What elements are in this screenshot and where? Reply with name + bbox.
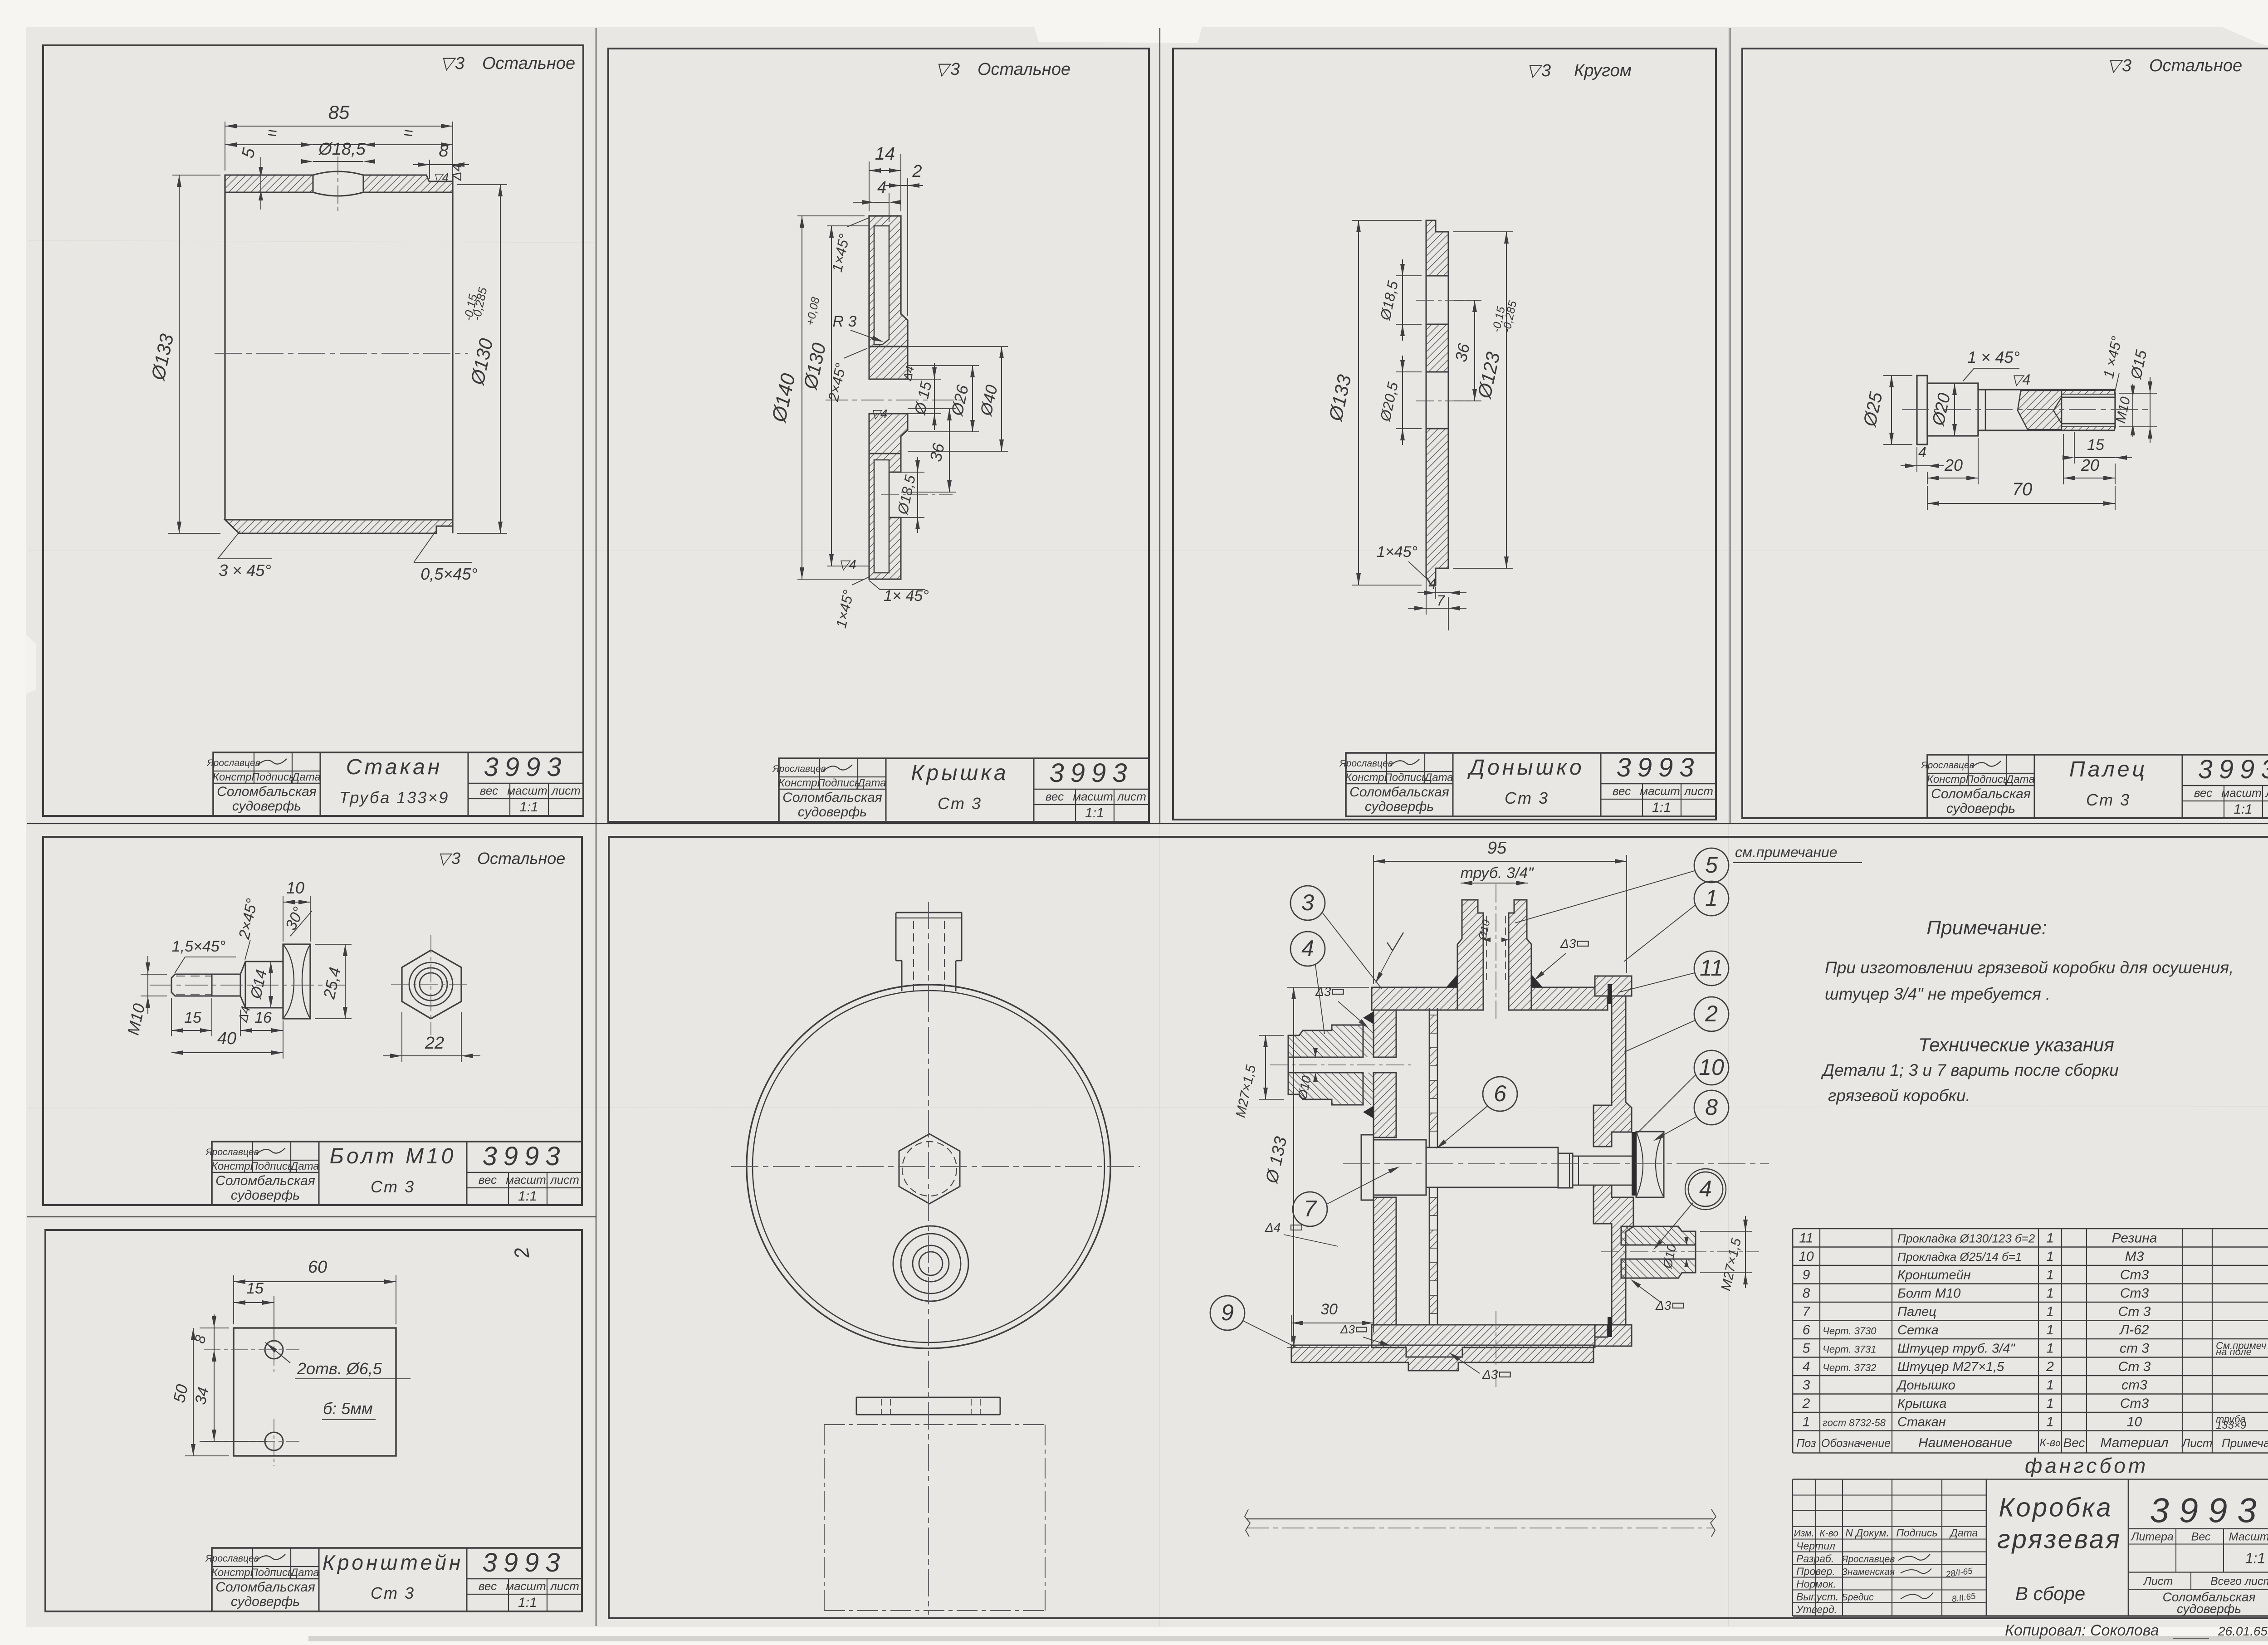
svg-text:грязевой коробки.: грязевой коробки. xyxy=(1828,1086,1970,1105)
svg-text:1:1: 1:1 xyxy=(2245,1550,2265,1567)
dimension 14 (thickness) xyxy=(869,161,870,211)
assembly front view: main circle Ø140/Ø133 xyxy=(747,985,1110,1348)
svg-text:Δ4: Δ4 xyxy=(450,164,464,181)
svg-text:Детали 1; 3 и 7 варить по: Детали 1; 3 и 7 варить после сборки xyxy=(1821,1061,2119,1079)
svg-text:лист: лист xyxy=(551,784,581,797)
dimension 15 (болт) xyxy=(171,998,172,1036)
dimension Ø133 (донышко) xyxy=(1352,220,1422,221)
svg-text:Дата: Дата xyxy=(289,1160,319,1172)
svg-text:Примечан.: Примечан. xyxy=(2222,1436,2268,1450)
svg-text:3993: 3993 xyxy=(2198,755,2268,784)
svg-text:фангсбот: фангсбот xyxy=(2025,1454,2148,1478)
svg-text:4: 4 xyxy=(1428,576,1437,592)
title block: Палец 3993 xyxy=(1927,755,2268,818)
svg-text:1: 1 xyxy=(2046,1415,2054,1430)
svg-text:26.01.65г.: 26.01.65г. xyxy=(2218,1624,2268,1638)
dimension 15 (thread depth) xyxy=(2074,432,2075,464)
scanner shadow at bottom edge xyxy=(308,1636,2268,1641)
svg-text:штуцер 3/4" не требуется .: штуцер 3/4" не требуется . xyxy=(1825,985,2050,1003)
part: болт М10 side view xyxy=(171,974,212,996)
svg-text:Дата: Дата xyxy=(2004,773,2034,786)
dimension Ø15 (палец) xyxy=(2119,393,2157,394)
svg-text:лист: лист xyxy=(1683,784,1713,798)
svg-text:лист: лист xyxy=(549,1579,579,1593)
svg-text:10: 10 xyxy=(1799,1249,1814,1264)
svg-text:Штуцер труб. 3/4": Штуцер труб. 3/4" xyxy=(1897,1342,2015,1356)
svg-text:вес: вес xyxy=(1613,784,1631,798)
svg-text:16: 16 xyxy=(254,1009,272,1026)
dimension Ø123 -0.15 -0.285 xyxy=(1453,231,1513,232)
svg-text:6: 6 xyxy=(1803,1323,1810,1337)
section: левый штуцер М27×1.5 (#4) xyxy=(1288,1025,1363,1057)
section: верхний штуцер труб 3/4 (#5) left wall xyxy=(1457,900,1483,1010)
dimension 20 (left) xyxy=(1927,472,1928,484)
svg-text:вес: вес xyxy=(479,1579,497,1593)
svg-text:Остальное: Остальное xyxy=(477,849,565,868)
svg-text:вес: вес xyxy=(480,784,498,797)
svg-text:Соломбальская: Соломбальская xyxy=(782,790,882,805)
dimension = = (symmetry) line xyxy=(313,144,363,145)
dimension 36 (донышко) xyxy=(1474,300,1475,401)
part: кронштейн plate xyxy=(234,1328,396,1456)
svg-text:7: 7 xyxy=(1437,592,1445,609)
balloon 7 xyxy=(1293,1192,1327,1226)
svg-text:Дата: Дата xyxy=(290,771,320,783)
svg-text:грязевая: грязевая xyxy=(1997,1525,2121,1554)
svg-text:Ярославцев: Ярославцев xyxy=(772,764,826,774)
svg-text:Подпись: Подпись xyxy=(817,777,860,789)
dimension 25.4 xyxy=(315,944,352,945)
svg-text:Ст 3: Ст 3 xyxy=(2118,1359,2151,1374)
panel frame: Палец sheet xyxy=(1742,49,2268,818)
svg-text:Ст3: Ст3 xyxy=(2120,1268,2149,1283)
svg-text:Дата: Дата xyxy=(1423,771,1453,784)
svg-text:Подпись: Подпись xyxy=(1965,773,2009,786)
panel frame: Крышка sheet xyxy=(608,49,1149,822)
svg-text:судоверфь: судоверфь xyxy=(231,1594,300,1609)
svg-text:3993: 3993 xyxy=(1616,753,1700,782)
centerlines болт hex view xyxy=(391,984,471,985)
svg-text:Наименование: Наименование xyxy=(1918,1435,2012,1450)
svg-text:масшт.: масшт. xyxy=(1073,790,1116,803)
svg-text:Выпуст.: Выпуст. xyxy=(1796,1591,1838,1603)
svg-text:Кругом: Кругом xyxy=(1574,61,1632,80)
svg-text:Констр.: Констр. xyxy=(213,771,254,783)
centerline: lower hole axis xyxy=(1416,400,1479,401)
svg-text:Ярославцев: Ярославцев xyxy=(1339,758,1393,769)
section: deck lines below xyxy=(1246,1518,1713,1519)
svg-text:Вес: Вес xyxy=(2191,1531,2211,1543)
svg-text:8: 8 xyxy=(1803,1286,1810,1301)
section: прокладка 130/123 (#11) dark strips xyxy=(1608,984,1612,1004)
dimension Ø14 xyxy=(270,962,271,1008)
section: прокладка 25/14 (#10) dark strip xyxy=(1632,1132,1636,1196)
part: стакан tube section outline xyxy=(224,175,225,520)
svg-text:7: 7 xyxy=(1803,1304,1811,1319)
svg-text:Знаменская: Знаменская xyxy=(1842,1567,1895,1577)
svg-text:10: 10 xyxy=(1699,1054,1724,1080)
centerline: левый штуцер axis xyxy=(1270,1064,1411,1065)
svg-text:R 3: R 3 xyxy=(833,313,857,330)
svg-text:4: 4 xyxy=(877,178,886,196)
dimension Ø140 xyxy=(797,215,865,216)
part: донышко hole lines xyxy=(1426,276,1427,324)
svg-text:20: 20 xyxy=(1944,456,1963,474)
part: болт shank xyxy=(212,974,240,996)
svg-text:3993: 3993 xyxy=(484,752,567,782)
panel frame: assembly sheet Коробка грязевая xyxy=(609,837,2268,1618)
svg-text:Нормок.: Нормок. xyxy=(1796,1578,1836,1590)
svg-text:N Докум.: N Докум. xyxy=(1845,1527,1889,1539)
svg-text:Δ3: Δ3 xyxy=(1315,985,1331,999)
main title: литера вес масштаб row xyxy=(2128,1528,2268,1529)
svg-text:3: 3 xyxy=(950,60,960,79)
svg-text:9: 9 xyxy=(1221,1300,1234,1325)
svg-text:Прокладка Ø25/14 б=1: Прокладка Ø25/14 б=1 xyxy=(1897,1250,2022,1264)
assembly front view: lower boss circles xyxy=(893,1226,968,1301)
chamfer note 3×45° xyxy=(218,531,240,559)
centerline: болт axis xyxy=(150,985,345,986)
weld fillets левый штуцер xyxy=(1363,1011,1374,1024)
svg-text:2: 2 xyxy=(912,162,922,181)
svg-text:1×45°: 1×45° xyxy=(1377,543,1417,561)
section: донышко end wall xyxy=(1374,1010,1396,1057)
svg-text:▽4: ▽4 xyxy=(838,557,856,572)
section: штуцер bore thread lines xyxy=(1486,916,1487,984)
svg-text:22: 22 xyxy=(425,1034,444,1053)
svg-text:Черт. 3730: Черт. 3730 xyxy=(1823,1325,1877,1337)
dimension 34 xyxy=(214,1350,215,1441)
dimension 15 (кронштейн) xyxy=(274,1296,274,1340)
dimension 40 xyxy=(283,1020,283,1059)
svg-text:3993: 3993 xyxy=(2150,1492,2266,1530)
centerline: крышка axis xyxy=(826,400,962,400)
svg-text:2: 2 xyxy=(2046,1359,2054,1374)
balloon 6 xyxy=(1483,1077,1517,1111)
svg-text:масшт.: масшт. xyxy=(507,784,550,797)
svg-text:К-во: К-во xyxy=(2040,1437,2061,1449)
note 2отв.Ø6,5 xyxy=(265,1342,290,1363)
svg-text:4: 4 xyxy=(1301,936,1314,961)
svg-text:Ст3: Ст3 xyxy=(2120,1286,2149,1301)
balloon 3 xyxy=(1290,886,1325,920)
svg-text:лист: лист xyxy=(549,1173,579,1186)
svg-text:Констр.: Констр. xyxy=(1927,773,1969,786)
main title: Коробка грязевая cell xyxy=(1986,1479,1987,1616)
svg-text:Кронштейн: Кронштейн xyxy=(1897,1268,1971,1283)
svg-text:2: 2 xyxy=(1802,1396,1810,1411)
svg-text:Ст 3: Ст 3 xyxy=(371,1584,415,1602)
svg-text:вес: вес xyxy=(2194,786,2212,800)
svg-text:Δ3: Δ3 xyxy=(1340,1323,1355,1336)
main title block revision verticals xyxy=(1792,1479,1793,1616)
dimension M10 (палец) xyxy=(2132,384,2133,437)
svg-text:3993: 3993 xyxy=(1049,758,1133,788)
centerline: section vertical axis bottom xyxy=(1496,1311,1496,1388)
svg-text:1: 1 xyxy=(2046,1268,2054,1283)
svg-text:Остальное: Остальное xyxy=(2149,56,2242,75)
svg-text:Черт. 3731: Черт. 3731 xyxy=(1823,1344,1877,1355)
svg-text:Литера: Литера xyxy=(2130,1531,2174,1543)
svg-text:1,5×45°: 1,5×45° xyxy=(172,938,226,955)
dimension Ø20.5 (донышко) xyxy=(1402,356,1403,445)
svg-text:1:1: 1:1 xyxy=(519,800,538,815)
svg-text:Поз: Поз xyxy=(1796,1437,1816,1450)
surface mark V (section top) xyxy=(1387,932,1403,951)
svg-text:3: 3 xyxy=(1803,1378,1810,1393)
svg-text:60: 60 xyxy=(308,1258,327,1277)
part: болт Ø14 section xyxy=(245,962,283,1008)
dimension 7 (донышко) xyxy=(1426,579,1427,615)
svg-text:Бредис: Бредис xyxy=(1842,1592,1874,1603)
svg-text:Черт. 3732: Черт. 3732 xyxy=(1823,1362,1877,1373)
svg-text:Соломбальская: Соломбальская xyxy=(215,1580,315,1595)
svg-text:судоверфь: судоверфь xyxy=(231,1188,300,1203)
svg-text:масшт.: масшт. xyxy=(506,1173,549,1186)
title block: Кронштейн 3993 xyxy=(212,1548,582,1611)
sheet separator lines xyxy=(27,823,2268,824)
svg-text:Ярославцев: Ярославцев xyxy=(1841,1554,1895,1565)
svg-text:Утверд.: Утверд. xyxy=(1796,1604,1837,1616)
parts table verticals xyxy=(1792,1229,1794,1453)
svg-text:на поле: на поле xyxy=(2216,1346,2252,1357)
dimension Ø25 xyxy=(1883,375,1912,376)
dimension Ø26 xyxy=(908,365,979,366)
svg-text:Лист: Лист xyxy=(2181,1436,2213,1450)
svg-text:Лист: Лист xyxy=(2143,1575,2173,1588)
svg-text:Дата: Дата xyxy=(856,777,886,789)
svg-text:Прокладка Ø130/123 б=2: Прокладка Ø130/123 б=2 xyxy=(1897,1232,2035,1245)
svg-text:3: 3 xyxy=(455,54,464,73)
dimension 10 (head width) xyxy=(283,896,283,942)
svg-text:95: 95 xyxy=(1487,839,1507,858)
svg-text:0,5×45°: 0,5×45° xyxy=(420,565,478,583)
dimension 60 (кронштейн) xyxy=(233,1275,234,1324)
main title: лист row xyxy=(2128,1572,2268,1572)
svg-text:2отв. Ø6,5: 2отв. Ø6,5 xyxy=(297,1359,382,1378)
centerlines кронштейн holes xyxy=(204,1349,299,1350)
parts table grid xyxy=(1793,1228,2268,1229)
title block: Стакан 3993 xyxy=(213,752,583,816)
svg-text:Штуцер М27×1,5: Штуцер М27×1,5 xyxy=(1897,1360,2004,1374)
svg-text:1: 1 xyxy=(2046,1249,2054,1264)
dimension 16 xyxy=(240,1030,283,1031)
svg-text:Констр.: Констр. xyxy=(1345,771,1387,784)
svg-text:1: 1 xyxy=(2046,1341,2054,1356)
svg-text:Сетка: Сетка xyxy=(1897,1323,1939,1337)
dimension Ø130+0.08 xyxy=(827,225,869,226)
title block: Донышко 3993 xyxy=(1346,753,1716,816)
svg-text:Масштаб: Масштаб xyxy=(2229,1531,2268,1543)
svg-text:Крышка: Крышка xyxy=(1897,1396,1946,1411)
balloon 4 right (double) xyxy=(1688,1172,1723,1206)
svg-text:масшт.: масшт. xyxy=(1640,784,1683,798)
svg-text:1 × 45°: 1 × 45° xyxy=(1967,348,2020,366)
panel frame: Болт М10 sheet xyxy=(43,837,582,1205)
centerline: upper hole axis xyxy=(1416,300,1479,301)
dimension 22 xyxy=(401,1012,402,1062)
svg-text:1: 1 xyxy=(2046,1286,2054,1301)
svg-text:Труба 133×9: Труба 133×9 xyxy=(339,788,450,807)
svg-text:масшт.: масшт. xyxy=(2221,786,2264,800)
svg-text:Ст 3: Ст 3 xyxy=(2086,791,2131,809)
svg-text:3: 3 xyxy=(1541,61,1551,80)
section: кронштейн внизу (#9) xyxy=(1291,1345,1593,1371)
svg-text:Ст 3: Ст 3 xyxy=(371,1177,415,1196)
main title block revision rows (left) xyxy=(1793,1495,1986,1496)
svg-text:4: 4 xyxy=(1699,1176,1712,1201)
svg-text:▽4: ▽4 xyxy=(433,171,449,184)
svg-text:Л-62: Л-62 xyxy=(2119,1323,2149,1337)
svg-text:М3: М3 xyxy=(2125,1249,2144,1264)
dimension 5 (wall thickness) xyxy=(260,157,261,210)
svg-text:Подпись: Подпись xyxy=(250,1160,293,1172)
dimension 85 (top width) xyxy=(225,122,225,171)
part: стакан top wall hatched band xyxy=(225,175,313,192)
assembly front view: top fitting (штуцер 3/4) xyxy=(896,912,962,913)
dimension 8 (кронштейн) xyxy=(214,1314,215,1363)
part: кронштейн hole upper xyxy=(265,1341,283,1359)
part: палец threaded hole M10 xyxy=(2062,397,2115,398)
svg-text:Подпись: Подпись xyxy=(250,1567,293,1579)
svg-text:40: 40 xyxy=(217,1029,236,1048)
assembly front view: hull mounting outline (phantom) xyxy=(824,1424,1045,1425)
dimension 20 (right) xyxy=(2063,434,2064,484)
svg-text:11: 11 xyxy=(1700,955,1723,981)
signatures in revision rows xyxy=(1898,1554,1930,1561)
weld fillets верхний штуцер xyxy=(1446,974,1457,987)
balloon 11 xyxy=(1694,951,1729,986)
svg-text:см.примечание: см.примечание xyxy=(1735,844,1838,860)
svg-text:1:1: 1:1 xyxy=(1652,800,1671,815)
panel frame: Кронштейн sheet xyxy=(45,1230,582,1611)
centerline: палец axis xyxy=(1902,409,2150,410)
svg-text:Остальное: Остальное xyxy=(482,54,575,73)
svg-text:Копировал: Соколова: Копировал: Соколова xyxy=(2005,1622,2159,1639)
svg-text:1:1: 1:1 xyxy=(1085,805,1104,820)
section: верхний штуцер труб 3/4 (#5) right wall xyxy=(1509,900,1531,1010)
svg-text:14: 14 xyxy=(875,144,895,164)
main title block frame xyxy=(1793,1615,2268,1616)
svg-text:3: 3 xyxy=(2122,56,2131,75)
svg-text:Ярославцев: Ярославцев xyxy=(1921,760,1974,771)
svg-text:9: 9 xyxy=(1803,1268,1810,1283)
svg-text:3 × 45°: 3 × 45° xyxy=(219,561,271,580)
dimension 8 (right step) xyxy=(429,160,430,179)
svg-text:▽4: ▽4 xyxy=(870,407,887,421)
svg-text:Соломбальская: Соломбальская xyxy=(215,1173,315,1188)
part: болт hex head side view xyxy=(283,944,310,1019)
svg-text:1: 1 xyxy=(2046,1304,2054,1319)
section: крышка (#2) xyxy=(1593,996,1632,1147)
dimension Ø20 xyxy=(1954,383,1955,436)
svg-text:3: 3 xyxy=(1301,890,1314,915)
svg-text:Обозначение: Обозначение xyxy=(1821,1437,1891,1450)
svg-text:85: 85 xyxy=(328,102,350,123)
part: палец hatched partial section xyxy=(2018,391,2062,430)
svg-text:Соломбальская: Соломбальская xyxy=(1349,785,1449,800)
svg-text:Кронштейн: Кронштейн xyxy=(323,1551,464,1574)
fold creases xyxy=(596,28,596,1626)
dimension 4 (slot) xyxy=(889,193,890,222)
svg-text:11: 11 xyxy=(1799,1231,1813,1246)
part: болт hex end view xyxy=(402,950,461,1019)
centerline: hole axis xyxy=(337,156,338,213)
svg-text:133×9: 133×9 xyxy=(2216,1419,2246,1431)
svg-text:вес: вес xyxy=(1046,790,1064,803)
svg-text:Стакан: Стакан xyxy=(1897,1415,1946,1430)
svg-text:Технические указания: Технические указания xyxy=(1918,1034,2114,1055)
svg-text:Δ3: Δ3 xyxy=(1560,937,1576,951)
svg-text:70: 70 xyxy=(2012,479,2033,499)
svg-text:15: 15 xyxy=(2087,436,2104,454)
svg-text:Материал: Материал xyxy=(2100,1435,2168,1450)
centerline: стакан axis xyxy=(215,353,468,354)
svg-text:судоверфь: судоверфь xyxy=(1365,799,1434,814)
part: крышка disc section outline xyxy=(869,216,908,347)
svg-text:2: 2 xyxy=(1705,1001,1718,1026)
part: кронштейн hole lower xyxy=(265,1432,283,1450)
balloon 9 xyxy=(1210,1296,1245,1330)
svg-text:Болт М10: Болт М10 xyxy=(1897,1286,1960,1301)
svg-text:Подпись: Подпись xyxy=(1384,771,1427,784)
svg-text:30: 30 xyxy=(1320,1301,1338,1318)
svg-text:4: 4 xyxy=(1803,1359,1810,1374)
svg-text:ст3: ст3 xyxy=(2121,1378,2147,1393)
dimension 95 (section top) xyxy=(1373,855,1374,984)
dimension 36 xyxy=(908,408,956,409)
dimension Ø18.5 (hole) xyxy=(313,161,363,162)
section: гайка/болт head (#8) xyxy=(1636,1132,1664,1197)
svg-text:судоверфь: судоверфь xyxy=(2177,1602,2241,1616)
part: крышка hub hatched (upper) xyxy=(869,347,908,379)
svg-text:15: 15 xyxy=(246,1280,264,1297)
svg-text:1:1: 1:1 xyxy=(518,1189,537,1204)
svg-text:3: 3 xyxy=(451,849,460,868)
svg-text:судоверфь: судоверфь xyxy=(798,805,867,820)
parts table header row xyxy=(1793,1430,2268,1431)
svg-text:15: 15 xyxy=(184,1009,201,1026)
dimension Ø18.5 (крышка) xyxy=(901,472,924,473)
part: донышко disc section xyxy=(1426,220,1448,276)
svg-text:Констр.: Констр. xyxy=(211,1567,253,1579)
title block: Крышка 3993 xyxy=(779,758,1149,822)
svg-text:7: 7 xyxy=(1304,1196,1317,1221)
section: стакан tube top wall xyxy=(1372,987,1457,1010)
panel frame: Донышко sheet xyxy=(1173,49,1716,820)
balloon 2 xyxy=(1694,997,1729,1031)
dimension Ø133 (section) xyxy=(1287,987,1369,988)
svg-text:Ст 3: Ст 3 xyxy=(2118,1304,2151,1319)
svg-text:20: 20 xyxy=(2081,456,2099,474)
part: крышка center hole Ø15 (white) xyxy=(869,379,908,380)
svg-text:Ст3: Ст3 xyxy=(2120,1396,2149,1411)
svg-text:судоверфь: судоверфь xyxy=(232,799,301,814)
svg-text:4: 4 xyxy=(1918,444,1926,460)
dimension 2 xyxy=(907,178,908,316)
balloon 8 xyxy=(1694,1090,1729,1125)
dimension 50 xyxy=(193,1328,194,1456)
svg-text:50: 50 xyxy=(170,1383,191,1405)
svg-text:Крышка: Крышка xyxy=(911,761,1009,785)
svg-text:Подпись: Подпись xyxy=(1896,1527,1937,1539)
svg-text:В сборе: В сборе xyxy=(2015,1583,2085,1604)
dimension 4 (палец) xyxy=(1901,465,1944,466)
svg-text:Вес: Вес xyxy=(2063,1436,2085,1450)
svg-text:Δ3: Δ3 xyxy=(1655,1298,1672,1313)
section: сетка mesh (#6) xyxy=(1429,1008,1430,1147)
title block: Болт М10 3993 xyxy=(212,1142,582,1205)
